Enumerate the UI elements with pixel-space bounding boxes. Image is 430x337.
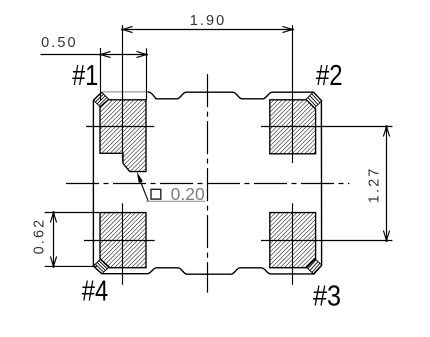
svg-text:0.62: 0.62 <box>31 218 47 255</box>
svg-text:1.27: 1.27 <box>367 167 383 204</box>
svg-text:0.20: 0.20 <box>171 184 205 204</box>
svg-text:#3: #3 <box>313 281 341 313</box>
svg-text:#2: #2 <box>316 60 343 92</box>
svg-text:1.90: 1.90 <box>190 13 227 29</box>
svg-text:#1: #1 <box>72 60 98 92</box>
svg-text:#4: #4 <box>82 276 108 308</box>
svg-text:0.50: 0.50 <box>41 35 78 51</box>
